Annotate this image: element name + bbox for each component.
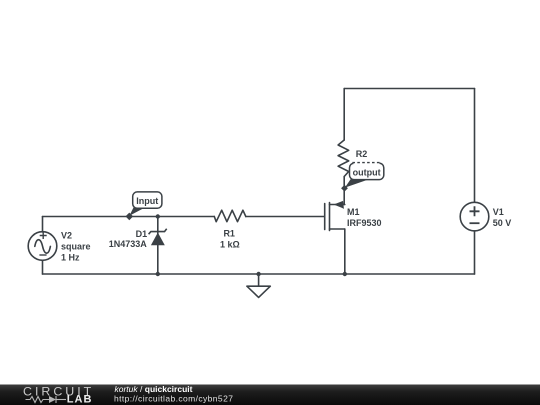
svg-text:1 kΩ: 1 kΩ <box>220 240 240 250</box>
svg-text:IRF9530: IRF9530 <box>347 218 382 228</box>
svg-text:1N4733A: 1N4733A <box>109 239 148 249</box>
svg-text:http://circuitlab.com/cybn527: http://circuitlab.com/cybn527 <box>114 394 233 404</box>
svg-text:D1: D1 <box>136 229 148 239</box>
svg-text:1 Hz: 1 Hz <box>61 252 80 262</box>
svg-text:V1: V1 <box>493 207 504 217</box>
svg-text:kortuk / quickcircuit: kortuk / quickcircuit <box>115 384 193 394</box>
svg-text:LAB: LAB <box>67 394 93 405</box>
svg-text:output: output <box>353 167 381 177</box>
svg-text:V2: V2 <box>61 230 72 240</box>
svg-text:R2: R2 <box>356 149 368 159</box>
svg-text:M1: M1 <box>347 207 360 217</box>
svg-text:Input: Input <box>136 196 158 206</box>
svg-text:square: square <box>61 241 91 251</box>
svg-text:50 V: 50 V <box>493 218 512 228</box>
svg-text:R1: R1 <box>223 228 235 238</box>
